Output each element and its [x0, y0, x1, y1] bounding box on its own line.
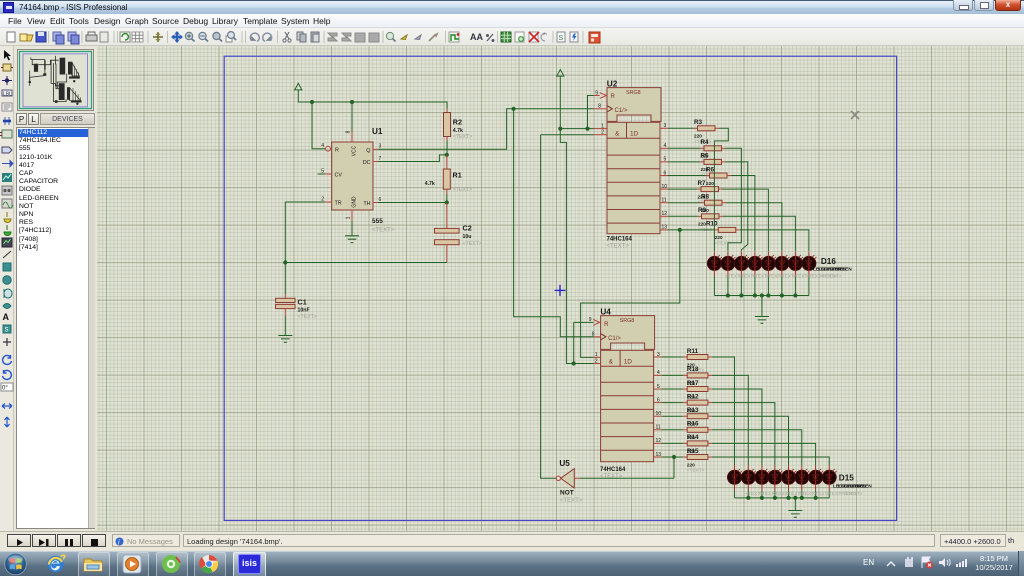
wire R1 to TH junction — [446, 194, 448, 203]
svg-text:<TEXT>: <TEXT> — [845, 491, 863, 496]
pin stub U1.5 — [325, 173, 332, 175]
wire LED cathode — [713, 276, 715, 295]
wire U2 pin1 — [560, 128, 593, 130]
wire LED bus D15 — [735, 497, 830, 499]
wire R2 to junction — [446, 141, 448, 155]
svg-text:9: 9 — [589, 317, 592, 323]
resistor R14 — [683, 434, 712, 459]
pin stub U2.8 clock — [594, 108, 608, 110]
wire R18 to LED — [712, 375, 748, 465]
wire TH pin6 — [378, 202, 447, 204]
wire power rail top — [298, 90, 447, 109]
wire R17 to LED — [712, 389, 762, 465]
node TR/C1/C2 — [283, 260, 287, 264]
pin stubs U4 outputs — [654, 356, 662, 358]
LED at x=748.3 (D15 bank) — [741, 465, 756, 490]
node U4 pin2 tie — [572, 361, 576, 365]
resistor R6 — [706, 166, 732, 191]
wire LED cathode — [828, 490, 830, 498]
LED at x=829.2 (D15 bank) — [822, 465, 837, 490]
marker origin cross — [555, 285, 566, 296]
wire U2 pin to R5 — [668, 161, 700, 163]
wire power2 to U4 — [560, 129, 573, 364]
wire LED cathode — [781, 276, 783, 295]
capacitor C2 — [435, 203, 482, 263]
wire R14 to LED — [712, 443, 816, 465]
svg-text:SRG8: SRG8 — [626, 90, 641, 96]
wire TR pin2 — [285, 202, 325, 294]
node bus D16 ground tap — [760, 293, 764, 297]
wire U2 pin to R7 — [668, 188, 697, 190]
src group — [557, 32, 578, 42]
wire R16 to LED — [712, 430, 802, 466]
wire U4 pin to R17 — [662, 388, 683, 390]
node U4 pin13 — [672, 455, 676, 459]
IC U4 74HC164 — [600, 308, 655, 480]
svg-text:0°: 0° — [2, 386, 8, 392]
wire U2 pin to R9 — [668, 215, 698, 217]
svg-text:SRG8: SRG8 — [620, 318, 635, 324]
wire C1 to ground — [284, 316, 286, 336]
LED at x=795.4 (D16 bank) — [788, 251, 803, 276]
svg-text:R16: R16 — [687, 421, 699, 428]
capacitor C1 — [276, 294, 317, 320]
wire U5 output riser — [541, 135, 557, 479]
pin stub U4.9 — [592, 321, 594, 323]
svg-text:4: 4 — [321, 143, 324, 149]
svg-text:R5: R5 — [701, 153, 710, 160]
isis active — [233, 552, 266, 576]
svg-text:3: 3 — [379, 144, 382, 150]
wire R4 to LED2 — [726, 148, 742, 251]
svg-text:U5: U5 — [559, 459, 570, 468]
wire LED cathode — [801, 490, 803, 498]
svg-text:TR: TR — [335, 201, 342, 207]
LED at x=768.4 (D16 bank) — [761, 251, 776, 276]
svg-text:<TEXT>: <TEXT> — [463, 241, 482, 247]
wire U4 pin to R13 — [662, 415, 683, 417]
svg-text:220: 220 — [687, 462, 695, 467]
node clock — [511, 107, 515, 111]
wire Q output to clock line — [378, 109, 594, 150]
cut copy paste — [283, 32, 319, 42]
wire DC pin7 — [378, 155, 447, 162]
pin stub U1.2 — [325, 201, 332, 203]
svg-text:R: R — [335, 147, 339, 153]
pin stub U2.2 — [594, 134, 608, 136]
svg-text:8: 8 — [598, 104, 601, 110]
svg-text:GND: GND — [352, 196, 358, 208]
svg-text:<TEXT>: <TEXT> — [824, 274, 842, 279]
wire U4 pin9 reset — [573, 322, 575, 363]
resistor R1 — [425, 155, 472, 194]
resistor R9 — [698, 207, 724, 232]
wire U4 pin to R16 — [662, 429, 683, 431]
svg-text:LED-GREEN: LED-GREEN — [844, 483, 873, 489]
svg-text:C1/>: C1/> — [615, 108, 628, 114]
node bus D16 x=795.4 — [793, 293, 797, 297]
wire resistor row y=189.1 to LED — [723, 189, 769, 251]
resistor R5 — [700, 153, 726, 178]
resistor R7 — [697, 180, 723, 205]
LED at x=741.4 (D16 bank) — [734, 251, 749, 276]
svg-text:D15: D15 — [839, 473, 854, 482]
svg-text:<TEXT>: <TEXT> — [687, 468, 705, 473]
wire R5 to LED3 — [726, 162, 748, 251]
svg-text:R2: R2 — [453, 118, 462, 127]
svg-text:<TEXT>: <TEXT> — [453, 134, 472, 140]
svg-text:CV: CV — [335, 173, 343, 179]
pin stub U2.9 — [594, 95, 600, 97]
svg-text:C1: C1 — [298, 298, 307, 307]
svg-text:R12: R12 — [687, 393, 699, 400]
wire U4 pin to R15 — [662, 456, 683, 458]
window buttons — [953, 0, 973, 11]
node bus D16 x=754.9 — [753, 293, 757, 297]
wire U1 gnd — [351, 221, 353, 236]
wire LED cathode — [761, 490, 763, 498]
wire LED cathode — [774, 490, 776, 498]
IE — [44, 552, 67, 575]
svg-text:R14: R14 — [687, 434, 699, 441]
svg-text:7: 7 — [379, 156, 382, 162]
svg-text:AA: AA — [470, 32, 483, 42]
svg-text:555: 555 — [372, 218, 383, 225]
red last icon — [589, 32, 600, 43]
wmp — [117, 552, 149, 576]
svg-text:220: 220 — [698, 222, 706, 227]
wire LED cathode — [734, 490, 736, 498]
svg-text:5: 5 — [321, 168, 324, 174]
360 browser — [156, 552, 188, 576]
pin stub U1.8 — [351, 132, 353, 142]
chrome — [194, 552, 226, 576]
LED at x=801.8 (D15 bank) — [795, 465, 810, 490]
svg-text:R17: R17 — [687, 380, 699, 387]
wire U4 pin2 — [574, 363, 594, 365]
node bus D15 x=801.8 — [800, 496, 804, 500]
resistor R2 — [444, 109, 473, 142]
pin stub U2.1 — [594, 128, 608, 130]
wire U2 pin to R6 — [668, 175, 706, 177]
svg-text:C1/>: C1/> — [608, 336, 621, 342]
svg-text:4.7k: 4.7k — [453, 128, 463, 134]
wire U4 pin to R11 — [662, 356, 683, 358]
wire to U1 pin8 — [351, 102, 353, 132]
wire to U1 pin4 — [312, 102, 325, 149]
node R1/TH/C2 — [445, 200, 449, 204]
svg-text:C2: C2 — [463, 224, 472, 233]
wire resistor row y=175.5 to LED — [731, 176, 755, 252]
power terminal VCC2 — [557, 70, 564, 77]
wire R3 hook to LED1 — [714, 128, 728, 251]
node U2 pin1 — [558, 127, 562, 131]
svg-text:<TEXT>: <TEXT> — [372, 228, 395, 234]
wire D15 bus to ground — [794, 498, 796, 511]
node U2 reset tie — [585, 127, 589, 131]
separators — [49, 31, 584, 43]
wire power2 down — [559, 76, 561, 129]
svg-text:U1: U1 — [372, 127, 383, 136]
svg-text:A: A — [3, 312, 10, 322]
pin stub U4.8 clock — [594, 336, 601, 338]
svg-text:6: 6 — [379, 197, 382, 203]
LED at x=781.9 (D16 bank) — [775, 251, 790, 276]
node bus D15 x=748.3 — [746, 496, 750, 500]
LED at x=714.4 (D16 bank) — [707, 251, 722, 276]
svg-text:R18: R18 — [687, 366, 699, 373]
svg-text:R10: R10 — [706, 221, 718, 228]
node R2/R1/DC — [445, 153, 449, 157]
wire LED cathode — [808, 276, 810, 295]
node U2 pin13 — [678, 228, 682, 232]
sheet group — [501, 32, 547, 42]
node rail-R — [310, 100, 314, 104]
svg-text:<TEXT>: <TEXT> — [607, 244, 630, 250]
wire U2 pin to R8 — [668, 202, 701, 204]
node bus D15 x=815.6 — [814, 496, 818, 500]
wire R12 to LED — [712, 403, 775, 466]
svg-text:U2: U2 — [607, 80, 618, 89]
resistor R8 — [701, 194, 727, 219]
svg-text:Q: Q — [366, 148, 370, 154]
wire U2 pin2 from U5 — [541, 134, 594, 136]
svg-text:TH: TH — [363, 201, 370, 207]
resistor R3 — [694, 119, 720, 144]
IC U2 74HC164 — [607, 80, 662, 250]
pin stubs U2 outputs — [660, 127, 668, 129]
wire LED cathode — [747, 490, 749, 498]
svg-text:&: & — [615, 131, 620, 138]
resistor R18 — [683, 366, 712, 391]
svg-text:10nF: 10nF — [298, 307, 310, 313]
svg-text:S: S — [5, 328, 9, 334]
wire U4 pin to R18 — [662, 374, 683, 376]
wire LED cathode — [740, 276, 742, 295]
power terminal VCC1 — [295, 83, 302, 90]
LED at x=788.5 (D15 bank) — [782, 465, 797, 490]
wire C2 to TR line — [285, 262, 447, 264]
pin stub U1.3 — [373, 148, 378, 150]
marker sheet X — [851, 111, 859, 119]
pin stub U1.4 — [330, 148, 331, 150]
resistor R4 — [700, 139, 726, 164]
node bus D15 x=774.9 — [773, 496, 777, 500]
inverter U5 NOT — [556, 459, 583, 504]
resistor R11 — [683, 348, 712, 373]
LED at x=734.5 (D15 bank) — [728, 465, 743, 490]
node bus D16 x=741.4 — [739, 293, 743, 297]
svg-text:220: 220 — [706, 181, 714, 186]
wire LED cathode — [727, 276, 729, 295]
ground GND-D15 — [788, 511, 802, 518]
svg-text:D16: D16 — [821, 257, 836, 266]
svg-text:R7: R7 — [698, 180, 707, 187]
svg-text:R1: R1 — [453, 171, 462, 180]
svg-text:<TEXT>: <TEXT> — [600, 474, 623, 480]
pin stub U1.1 — [351, 210, 353, 221]
node bus D16 x=781.9 — [780, 293, 784, 297]
LED at x=727.9 (D16 bank) — [721, 251, 736, 276]
wire R13 to LED — [712, 416, 789, 465]
wire U4 pin1 from U2 QH — [581, 230, 680, 358]
wire LED cathode — [815, 490, 817, 498]
svg-text:<TEXT>: <TEXT> — [298, 314, 317, 320]
LED at x=754.9 (D16 bank) — [748, 251, 763, 276]
LED at x=761.9 (D15 bank) — [755, 465, 770, 490]
svg-text:DC: DC — [363, 160, 371, 166]
wire resistor row y=202.7 to LED — [726, 203, 782, 251]
svg-text:R9: R9 — [698, 207, 707, 214]
wire R15 to LED — [712, 457, 829, 465]
resistor R16 — [683, 421, 712, 446]
svg-text:R13: R13 — [687, 407, 699, 414]
svg-text:R6: R6 — [706, 166, 715, 173]
node bus D15 ground tap — [793, 496, 797, 500]
sheet border — [224, 56, 896, 520]
explorer — [78, 552, 110, 576]
wire LED bus D16 — [714, 295, 809, 297]
wire U5 input from U4 pin13 — [580, 477, 674, 479]
svg-text:R: R — [604, 322, 609, 328]
svg-text:4.7k: 4.7k — [425, 181, 435, 187]
wire resistor row y=216.3 to LED — [723, 216, 795, 251]
svg-text:9: 9 — [595, 90, 598, 96]
op-amp U1 555 timer — [321, 127, 395, 234]
resistor R17 — [683, 380, 712, 405]
pin stub U4.1 — [594, 356, 601, 358]
wire LED cathode — [767, 276, 769, 295]
wire R10 to LED8 — [740, 230, 809, 251]
pin stub U1.7 — [373, 161, 378, 163]
wire U4 pin to R12 — [662, 402, 683, 404]
wire LED cathode — [788, 490, 790, 498]
wire CV stub — [318, 173, 326, 175]
svg-text:1: 1 — [601, 123, 604, 129]
ground GND-U1 — [345, 236, 359, 243]
LED at x=774.9 (D15 bank) — [768, 465, 783, 490]
svg-text:10u: 10u — [463, 234, 472, 240]
svg-text:NOT: NOT — [560, 490, 574, 497]
resistor R13 — [683, 407, 712, 432]
svg-text:R8: R8 — [701, 194, 710, 201]
svg-text:220: 220 — [715, 235, 723, 240]
svg-text:<TEXT>: <TEXT> — [453, 187, 472, 193]
svg-text:1: 1 — [595, 352, 598, 358]
svg-text:220: 220 — [694, 134, 702, 139]
view group — [120, 31, 183, 43]
resistor R15 — [683, 448, 712, 473]
file group — [7, 32, 108, 44]
svg-text:R: R — [611, 94, 616, 100]
wire U2 pin to R10 — [668, 229, 714, 231]
wire U4 pin13 feedback — [673, 457, 675, 478]
svg-text:8: 8 — [592, 332, 595, 338]
device tools — [386, 32, 437, 41]
start orb — [3, 552, 28, 576]
LED at x=808.9 (D16 bank) — [802, 251, 817, 276]
LED at x=815.6 (D15 bank) — [809, 465, 824, 490]
pin stub U5 input — [574, 477, 580, 479]
tray — [863, 558, 874, 567]
node bus D15 x=761.9 — [760, 496, 764, 500]
svg-text:1: 1 — [346, 216, 352, 219]
block ops (disabled grey) — [328, 33, 379, 42]
svg-text:8: 8 — [346, 130, 352, 133]
svg-text:1D: 1D — [630, 131, 639, 138]
node bus D16 x=727.9 — [726, 293, 730, 297]
pin stub U1.6 — [373, 202, 378, 204]
pin stub U4.2 — [594, 363, 601, 365]
undo redo — [250, 33, 271, 41]
route/search/assign — [449, 32, 495, 42]
svg-text:74HC164: 74HC164 — [607, 237, 633, 243]
wire U2 pin to R3 — [668, 127, 694, 129]
svg-text:74HC164: 74HC164 — [600, 467, 626, 473]
resistor R10 — [706, 221, 740, 246]
node bus D16 x=768.4 — [766, 293, 770, 297]
svg-text:2: 2 — [321, 196, 324, 202]
node rail-VCC — [350, 100, 354, 104]
magnifiers — [185, 32, 236, 42]
svg-text:2: 2 — [595, 359, 598, 365]
svg-text:LBL: LBL — [3, 92, 12, 98]
node bus D15 x=788.5 — [786, 496, 790, 500]
svg-text:&: & — [609, 359, 614, 366]
wire D16 bus to ground — [761, 296, 763, 317]
svg-text:1D: 1D — [624, 359, 633, 366]
ground GND-C1 — [278, 336, 292, 343]
svg-text:R15: R15 — [687, 448, 699, 455]
svg-text:S: S — [559, 35, 564, 42]
wire U4 pin to R14 — [662, 442, 683, 444]
svg-text:R3: R3 — [694, 119, 703, 126]
ground GND-D16 — [755, 317, 769, 324]
svg-text:R11: R11 — [687, 348, 699, 355]
wire clock to U4 — [514, 109, 594, 337]
wire R11 to LED — [712, 357, 735, 465]
svg-text:2: 2 — [601, 130, 604, 136]
svg-text:LED-GREEN: LED-GREEN — [824, 267, 853, 273]
wire LED cathode — [754, 276, 756, 295]
wire U2 pin to R4 — [668, 147, 700, 149]
svg-text:<TEXT>: <TEXT> — [560, 498, 583, 504]
wire U2 pin9 reset — [588, 96, 594, 129]
resistor R12 — [683, 393, 712, 418]
svg-text:U4: U4 — [600, 308, 611, 317]
playback buttons — [7, 534, 107, 548]
wire LED cathode — [794, 276, 796, 295]
svg-text:VCC: VCC — [352, 145, 358, 156]
svg-text:R4: R4 — [701, 139, 710, 146]
